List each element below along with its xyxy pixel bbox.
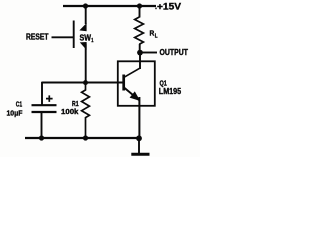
node junction R1 bottom <box>83 135 88 140</box>
wire C1 top lead (corner down) <box>41 82 43 105</box>
svg-text:+15V: +15V <box>157 2 182 13</box>
node junction RL top on +15V rail <box>137 3 142 8</box>
switch SW1 actuator bar <box>73 21 75 49</box>
transistor Q1 emitter diagonal <box>124 88 139 101</box>
wire OUTPUT lead <box>141 52 157 54</box>
wire top +15V rail <box>63 5 156 7</box>
capacitor C1 bottom plate <box>32 111 57 113</box>
svg-text:1: 1 <box>91 38 93 44</box>
svg-text:RESET: RESET <box>26 33 49 42</box>
period artifact before +15V <box>155 8 156 10</box>
node junction SW1 top on +15V rail <box>83 3 88 8</box>
wire bottom ground rail <box>25 137 140 139</box>
wire SW1 bottom lead <box>85 44 87 83</box>
ground stub wire <box>138 138 140 153</box>
wire RL top lead <box>139 6 141 18</box>
ground symbol bar <box>131 153 149 156</box>
wire collector lead into box <box>139 53 141 70</box>
resistor R1 <box>82 83 90 139</box>
transistor Q1 collector diagonal <box>124 68 140 77</box>
capacitor C1 top plate <box>32 104 57 106</box>
svg-text:100k: 100k <box>61 107 79 116</box>
wire emitter lead to rail <box>138 97 140 138</box>
capacitor C1 plus polarity mark <box>46 95 53 102</box>
wire RL bottom lead <box>139 44 141 52</box>
node junction R1/SW1/base <box>83 80 88 85</box>
transistor Q1 base bar <box>122 75 125 91</box>
wire RESET lead <box>52 36 74 38</box>
svg-text:SW: SW <box>80 33 92 42</box>
transistor Q1 emitter arrowhead <box>130 91 141 101</box>
switch SW1 top contact arrow <box>79 23 86 31</box>
switch SW1 bottom contact arrow <box>80 42 87 50</box>
svg-text:10μF: 10μF <box>7 109 23 118</box>
svg-text:C1: C1 <box>16 99 22 108</box>
svg-text:OUTPUT: OUTPUT <box>160 48 189 57</box>
wire SW1 top lead <box>85 6 87 24</box>
node junction emitter/ground <box>136 135 142 141</box>
node OUTPUT junction <box>137 50 143 56</box>
node junction C1 bottom <box>39 135 44 140</box>
wire C1 bottom lead <box>41 112 43 138</box>
wire base node horizontal (C1 to Q1 base) <box>42 82 123 84</box>
svg-text:LM195: LM195 <box>159 86 182 96</box>
transistor Q1 package box <box>118 61 155 106</box>
resistor RL <box>135 17 144 44</box>
